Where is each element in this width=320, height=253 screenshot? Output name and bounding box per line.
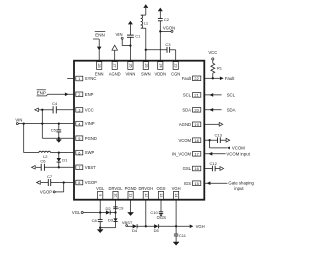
- node VCC terminal: [208, 50, 217, 63]
- diode D1: [57, 153, 69, 168]
- ground below PGND line: [56, 138, 61, 143]
- capacitor C5: [51, 124, 61, 139]
- node VCC rail arrow (left): [35, 108, 39, 112]
- svg-text:VGOP: VGOP: [85, 180, 97, 185]
- wire L2 to pin 6 SWP: [51, 151, 74, 153]
- svg-text:IN_VCOM: IN_VCOM: [172, 151, 192, 156]
- pin 16 (GSL): [183, 166, 201, 171]
- pin 4 (VINP): [76, 121, 95, 126]
- wire pin 17 VCOM input: [204, 151, 250, 156]
- capacitor C4: [52, 101, 58, 113]
- inductor L1: [141, 15, 149, 28]
- wire SWN node to C3: [146, 49, 167, 51]
- pin 3 (VCC): [76, 107, 94, 112]
- wire VCOM branch: [210, 140, 246, 150]
- svg-text:Gate shaping: Gate shaping: [228, 181, 254, 186]
- svg-text:VCC: VCC: [85, 107, 94, 112]
- svg-text:14: 14: [174, 193, 178, 197]
- svg-text:VGH: VGH: [172, 186, 181, 191]
- svg-text:CGN: CGN: [171, 72, 180, 77]
- svg-text:ENN: ENN: [95, 72, 104, 77]
- svg-text:13: 13: [159, 193, 163, 197]
- wire VBST to D4: [127, 225, 133, 227]
- svg-text:VGOP: VGOP: [40, 190, 52, 195]
- wire C1 to pin 26 VINN: [129, 37, 131, 60]
- svg-text:VINP: VINP: [85, 121, 95, 126]
- svg-text:ENN: ENN: [95, 32, 105, 37]
- wire ENN to pin 28: [98, 39, 100, 61]
- ground below C11: [173, 242, 179, 245]
- node VDDN rail arrow (C2 top): [158, 8, 163, 19]
- svg-text:D4: D4: [132, 228, 138, 233]
- pin 17 (IN_VCOM): [172, 151, 201, 156]
- wire pin 18 VCOM line: [204, 139, 217, 141]
- svg-text:C8: C8: [92, 218, 98, 223]
- svg-text:VBST: VBST: [122, 220, 133, 225]
- pin 9 (VGL): [96, 186, 105, 199]
- wire C7 to pin 8 VGOP: [51, 181, 74, 183]
- svg-text:R1: R1: [217, 65, 223, 70]
- wire D3 to C8 ground node: [99, 222, 115, 229]
- node OGS terminal: [157, 214, 167, 220]
- wire pin 19 output arrow: [204, 122, 223, 126]
- svg-text:VGL: VGL: [72, 210, 81, 215]
- capacitor C7: [41, 174, 53, 186]
- pin 15 (IGS): [184, 181, 201, 186]
- svg-text:C2: C2: [164, 17, 170, 22]
- svg-text:C9: C9: [118, 205, 124, 210]
- svg-text:SCL: SCL: [227, 92, 236, 97]
- pin 13 (OGS): [156, 186, 165, 199]
- svg-text:C6: C6: [40, 158, 46, 163]
- wire pin 9 VGL vertical: [99, 200, 101, 220]
- resistor R1: [211, 63, 223, 73]
- wire pin 1 SYNC stub: [67, 78, 74, 80]
- node VGOP rail arrow (left): [37, 181, 41, 185]
- svg-text:18: 18: [194, 138, 198, 143]
- capacitor C13: [215, 133, 223, 143]
- svg-text:D3: D3: [108, 218, 114, 223]
- svg-text:C3: C3: [165, 42, 171, 47]
- ground pin 11 PGND: [128, 200, 134, 216]
- svg-text:D2: D2: [105, 206, 111, 211]
- svg-text:11: 11: [129, 193, 133, 197]
- svg-text:DRVGH: DRVGH: [138, 186, 153, 191]
- svg-text:VINN: VINN: [126, 72, 136, 77]
- svg-text:16: 16: [194, 166, 198, 171]
- node ENP flag: [37, 90, 48, 96]
- svg-text:VGON: VGON: [163, 26, 175, 31]
- svg-text:C4: C4: [52, 101, 58, 106]
- wire pin 21 SCL input: [204, 92, 235, 97]
- wire pin 22 Fault output: [204, 76, 235, 81]
- svg-text:Fault: Fault: [182, 76, 192, 81]
- diode D4: [132, 224, 138, 233]
- wire D5 to VGH output: [159, 224, 205, 229]
- pin 6 (SWP): [76, 150, 95, 155]
- node VGL terminal: [72, 210, 106, 215]
- svg-text:C7: C7: [47, 174, 53, 179]
- node VBST rail arrow (left): [32, 166, 36, 170]
- svg-text:1: 1: [78, 76, 80, 81]
- arrow into ENP: [65, 93, 69, 97]
- capacitor C2: [158, 17, 170, 22]
- svg-text:D1: D1: [62, 158, 68, 163]
- pin 22 (Fault): [182, 76, 201, 81]
- diode D2: [105, 206, 116, 215]
- svg-text:GSL: GSL: [183, 166, 192, 171]
- diode D3: [108, 218, 118, 223]
- wire L1 to pin 25 SWN: [145, 28, 147, 61]
- capacitor C1: [127, 34, 141, 39]
- svg-text:VIN: VIN: [116, 32, 123, 37]
- capacitor C6: [36, 158, 46, 170]
- svg-text:6: 6: [78, 150, 80, 155]
- wire R1 to Fault line: [212, 73, 214, 79]
- wire pin 14 VGH vertical: [175, 200, 177, 234]
- svg-text:PGND: PGND: [85, 136, 97, 141]
- svg-text:26: 26: [128, 63, 132, 67]
- svg-text:25: 25: [144, 63, 148, 67]
- svg-text:SYNC: SYNC: [85, 76, 97, 81]
- ground below C8: [97, 228, 103, 233]
- wire VIN line to pin 4 VINP: [18, 122, 74, 124]
- svg-text:SWP: SWP: [85, 150, 95, 155]
- pin 7 (VBST): [76, 165, 96, 170]
- svg-text:AGND: AGND: [179, 122, 191, 127]
- svg-text:VGL: VGL: [96, 186, 105, 191]
- node VGOP terminal: [40, 183, 64, 195]
- svg-text:8: 8: [78, 180, 80, 185]
- svg-text:24: 24: [158, 63, 162, 67]
- capacitor C3: [165, 42, 171, 53]
- wire C6 to pin 7 VBST: [44, 166, 74, 168]
- svg-text:OGS: OGS: [156, 186, 165, 191]
- svg-text:9: 9: [98, 194, 102, 196]
- pin 28 (ENN): [95, 62, 104, 77]
- pin 14 (VGH): [172, 186, 181, 199]
- pin 8 (VGOP): [76, 180, 97, 185]
- pin 2 (ENP): [76, 92, 94, 97]
- svg-text:22: 22: [194, 76, 198, 81]
- node VIN terminal (top): [116, 32, 124, 39]
- pin 18 (VCOM): [178, 138, 200, 143]
- svg-text:21: 21: [194, 93, 198, 98]
- diode D5: [154, 224, 160, 233]
- svg-text:PGND: PGND: [125, 186, 137, 191]
- svg-text:SDA: SDA: [227, 107, 236, 112]
- svg-text:OGS: OGS: [157, 215, 167, 220]
- svg-text:SCL: SCL: [183, 93, 192, 98]
- wire C12 to output arrow: [215, 167, 224, 171]
- svg-text:ENP: ENP: [37, 90, 46, 95]
- svg-text:15: 15: [194, 181, 198, 186]
- wire VIN drop to L2: [23, 124, 25, 153]
- svg-text:VBST: VBST: [85, 165, 96, 170]
- wire pin 20 SDA input: [204, 107, 235, 112]
- wire pin 12 DRVGH vertical: [145, 200, 147, 228]
- pin 20 (SDA): [182, 107, 200, 112]
- pin 5 (PGND): [76, 136, 97, 141]
- svg-text:7: 7: [78, 165, 80, 170]
- wire VCC to PGND drop: [41, 110, 43, 138]
- capacitor C8: [92, 218, 103, 228]
- pin 21 (SCL): [183, 93, 201, 98]
- capacitor C12: [204, 161, 217, 171]
- svg-text:VCC: VCC: [208, 50, 217, 55]
- wire D4 to D5: [137, 225, 154, 227]
- svg-text:2: 2: [78, 92, 80, 97]
- IC U1 body: [74, 61, 204, 200]
- pin 19 (AGND): [179, 122, 201, 127]
- capacitor C11: [174, 233, 187, 242]
- wire C2 to pin 24 VDDN: [159, 21, 161, 61]
- svg-text:input: input: [234, 186, 244, 191]
- svg-text:AGND: AGND: [109, 72, 121, 77]
- wire pin 15 gate shaping input: [204, 181, 254, 191]
- svg-text:C12: C12: [210, 161, 218, 166]
- svg-text:DRVGL: DRVGL: [108, 186, 123, 191]
- svg-text:VDDN: VDDN: [154, 72, 166, 77]
- pin 26 (VINN): [126, 62, 136, 77]
- svg-text:VCOM: VCOM: [232, 146, 245, 151]
- wire C13 to output arrow: [220, 138, 229, 142]
- svg-text:5: 5: [78, 136, 80, 141]
- node VIN terminal (left): [15, 117, 22, 124]
- node VGON terminal: [160, 26, 175, 33]
- svg-text:ENP: ENP: [85, 92, 94, 97]
- svg-text:10: 10: [114, 193, 118, 197]
- node SWN top arrow: [143, 4, 148, 15]
- svg-text:IGS: IGS: [184, 181, 191, 186]
- svg-text:SWN: SWN: [141, 72, 151, 77]
- svg-text:28: 28: [97, 63, 101, 67]
- pin 23 (CGN): [171, 62, 180, 77]
- pin 24 (VDDN): [154, 62, 166, 77]
- svg-text:C11: C11: [179, 233, 187, 238]
- svg-text:C1: C1: [135, 34, 141, 39]
- arrow into ENN: [97, 47, 102, 51]
- svg-text:19: 19: [194, 122, 198, 127]
- capacitor C9: [113, 205, 124, 210]
- pin 27 (AGND): [109, 62, 121, 77]
- svg-text:C13: C13: [215, 133, 223, 138]
- wire PGND line to pin 5: [42, 137, 74, 139]
- svg-text:VCOM input: VCOM input: [226, 151, 250, 156]
- svg-text:3: 3: [78, 108, 80, 113]
- pin 12 (DRVGH): [138, 186, 153, 199]
- pin 11 (PGND): [125, 186, 137, 199]
- pin 25 (SWN): [141, 62, 151, 77]
- svg-text:VIN: VIN: [15, 117, 22, 122]
- pin 1 (SYNC): [76, 76, 97, 81]
- wire pin 10 DRVGL vertical: [115, 200, 117, 219]
- wire C4 to pin 3 VCC: [56, 109, 74, 111]
- ground AGND triangle (pin 27): [112, 45, 118, 61]
- inductor L2: [24, 151, 51, 159]
- svg-text:17: 17: [194, 152, 198, 157]
- svg-text:SDA: SDA: [182, 107, 191, 112]
- svg-text:23: 23: [174, 63, 178, 67]
- svg-text:D5: D5: [154, 228, 160, 233]
- wire VCC line: [39, 109, 53, 111]
- svg-text:L1: L1: [144, 21, 149, 26]
- svg-text:12: 12: [144, 193, 148, 197]
- svg-text:VCOM: VCOM: [178, 138, 191, 143]
- pin 10 (DRVGL): [108, 186, 123, 199]
- svg-text:27: 27: [113, 63, 117, 67]
- svg-text:C5: C5: [51, 128, 57, 133]
- node ENN flag: [93, 32, 105, 39]
- wire VIN to VINN node: [122, 39, 131, 47]
- svg-text:Fault: Fault: [225, 76, 235, 81]
- node VIN rail arrow (C1 top): [128, 21, 133, 35]
- wire C3 to pin 23 CGN: [170, 50, 176, 61]
- wire ENP to pin 2: [47, 93, 74, 95]
- capacitor C10: [150, 200, 163, 215]
- svg-text:VGH: VGH: [196, 224, 205, 229]
- node VBST terminal (bottom): [122, 220, 133, 227]
